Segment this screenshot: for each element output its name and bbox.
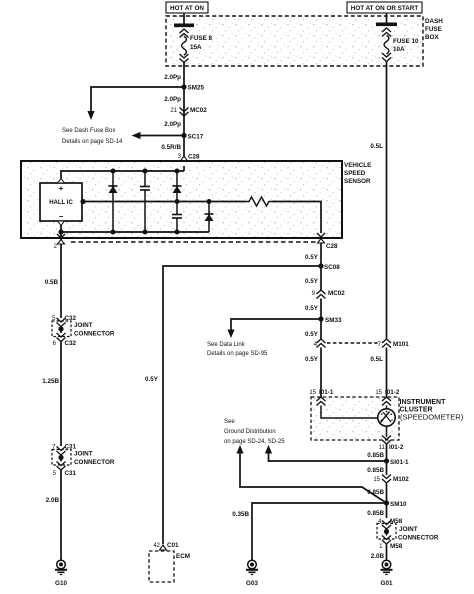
svg-text:2.0B: 2.0B [371, 553, 385, 560]
hall IC - terminal mark [58, 221, 65, 226]
svg-text:FUSE 10: FUSE 10 [393, 38, 419, 45]
wire G03 branch [252, 503, 387, 560]
arrow to data link note [227, 330, 234, 339]
wire fuse10 to M101 pin7 [386, 62, 388, 340]
connector M101 pin 4 [314, 339, 326, 348]
svg-text:C28: C28 [188, 154, 200, 161]
svg-text:JOINT: JOINT [74, 322, 93, 329]
svg-text:0.5Y: 0.5Y [305, 278, 319, 285]
wire SI01-1 branch to ground distribution [269, 452, 387, 461]
wire C28 to SC08 [320, 243, 322, 266]
svg-text:CONNECTOR: CONNECTOR [74, 459, 115, 466]
svg-text:I01-2: I01-2 [385, 389, 400, 396]
diode D3 [205, 202, 214, 233]
svg-text:I01-2: I01-2 [389, 444, 404, 451]
wire SM10 to M58 [386, 503, 388, 518]
svg-text:G03: G03 [246, 580, 258, 587]
svg-text:−: − [59, 212, 64, 221]
node SI01-1 [384, 458, 409, 466]
svg-text:HOT AT ON: HOT AT ON [170, 5, 204, 12]
ground G03 [246, 560, 258, 587]
dash fuse box label [425, 18, 443, 41]
wire from HOT AT ON to bus bar [183, 13, 185, 24]
connector C01 pin 42 (ECM entry) [153, 542, 179, 556]
svg-text:5: 5 [53, 471, 57, 477]
svg-text:MC02: MC02 [190, 107, 207, 114]
svg-text:2.0Pp: 2.0Pp [164, 74, 181, 81]
svg-text:SM10: SM10 [390, 501, 407, 508]
svg-text:SENSOR: SENSOR [344, 178, 371, 185]
instrument cluster box [311, 397, 399, 440]
wire SI01-1 to M102 [386, 461, 388, 475]
bus bar right [376, 23, 397, 27]
connector M102 pin 15 [373, 475, 409, 484]
connector C28 pin 2 (sensor exit) [54, 232, 65, 250]
svg-text:7: 7 [378, 342, 382, 348]
svg-text:2.0Pp: 2.0Pp [164, 121, 181, 128]
svg-text:VEHICLE: VEHICLE [344, 162, 371, 169]
svg-text:11: 11 [379, 445, 386, 451]
svg-text:2: 2 [54, 244, 58, 250]
capacitor C1 [140, 171, 150, 232]
svg-text:1.25B: 1.25B [42, 378, 59, 385]
vehicle speed sensor box [21, 161, 342, 238]
svg-text:G01: G01 [381, 580, 393, 587]
joint connector C31 label [74, 451, 115, 467]
node SM25 [181, 84, 204, 91]
svg-text:C32: C32 [65, 340, 77, 347]
svg-text:See Data Link: See Data Link [207, 342, 246, 348]
ECM box [149, 551, 190, 582]
node D1 top [111, 169, 116, 174]
svg-text:HOT AT ON OR START: HOT AT ON OR START [351, 5, 419, 12]
node SM33 [318, 316, 342, 324]
svg-text:15: 15 [373, 477, 380, 483]
node SC08 [318, 263, 340, 271]
svg-text:(SPEEDOMETER): (SPEEDOMETER) [400, 413, 464, 422]
wire cluster to SI01-1 [386, 444, 388, 461]
svg-text:FUSE 8: FUSE 8 [190, 35, 213, 42]
node D2/C2 bottom [175, 230, 180, 235]
joint connector M58 label [398, 526, 439, 542]
node SC17 [181, 133, 203, 141]
wire M102 to SM10 [386, 484, 388, 504]
speedometer gauge [378, 409, 395, 426]
fuse 10 value label [393, 38, 419, 53]
resistor R1 [246, 197, 272, 206]
svg-text:JOINT: JOINT [399, 526, 418, 533]
svg-text:42: 42 [153, 543, 160, 549]
wire cluster internal left [321, 406, 378, 419]
svg-text:CONNECTOR: CONNECTOR [74, 331, 115, 338]
node D2/C2 top [175, 169, 180, 174]
svg-text:M58: M58 [390, 543, 403, 550]
hall IC box [40, 183, 82, 221]
note: see data link details [207, 342, 268, 357]
svg-text:0.5Y: 0.5Y [305, 305, 319, 312]
svg-text:SM33: SM33 [325, 317, 342, 324]
wire speedometer to exit [386, 426, 388, 437]
connector I01-2 pin 11 (exit) [379, 436, 404, 452]
wire SM33 to M101 pin4 [320, 319, 322, 339]
wire pin2 to C32 [60, 247, 62, 318]
svg-text:FUSE: FUSE [425, 26, 442, 33]
connector I01-2 pin 15 [375, 389, 400, 406]
arrow 1 to ground distribution note [236, 445, 243, 454]
hall IC + terminal mark [58, 179, 65, 184]
svg-text:SC08: SC08 [324, 264, 340, 271]
wire MC02 to SM33 [320, 299, 322, 320]
svg-text:MC02: MC02 [328, 290, 345, 297]
fuse 8 connector bottom [180, 54, 189, 63]
ground G10 [55, 560, 67, 587]
fuse 8 value label [190, 35, 213, 51]
svg-text:0.5L: 0.5L [370, 356, 383, 363]
node D1 bottom [111, 230, 116, 235]
wire M101 pin4 to cluster I01-1 [320, 348, 322, 399]
wire sensor entry to top rail [183, 166, 185, 171]
svg-text:C01: C01 [167, 542, 179, 549]
svg-text:JOINT: JOINT [74, 451, 93, 458]
svg-text:3: 3 [178, 154, 182, 160]
vehicle speed sensor label [344, 162, 371, 185]
svg-text:SPEED: SPEED [344, 170, 366, 177]
connector C28 pin 1 (sensor exit) [317, 233, 338, 250]
connector C28 pin 3 (sensor entry) [178, 154, 200, 167]
wire from ground distribution arrow 1 (diagonal to SM10) [240, 452, 387, 503]
diode D2 [173, 171, 182, 202]
arrow to dash fuse box note (left) [132, 132, 141, 139]
HOT AT ON label [166, 2, 208, 13]
svg-text:0.85B: 0.85B [367, 467, 384, 474]
wire resistor to C28 pin 1 [272, 202, 321, 234]
instrument cluster label [400, 399, 464, 422]
node C1 bottom [143, 230, 148, 235]
svg-text:0.5Y: 0.5Y [305, 356, 319, 363]
svg-text:0.5Y: 0.5Y [145, 376, 159, 383]
node hall output [80, 199, 85, 204]
svg-text:INSTRUMENT: INSTRUMENT [400, 399, 447, 406]
wire from HOT AT ON OR START to bus bar [386, 13, 388, 23]
svg-text:HALL IC: HALL IC [49, 200, 73, 206]
wire C31 to G10 [60, 470, 62, 560]
ground G01 [381, 560, 393, 587]
svg-text:SC17: SC17 [188, 134, 204, 141]
svg-text:2.0Pp: 2.0Pp [164, 96, 181, 103]
svg-text:21: 21 [170, 108, 177, 114]
node D2/C2 middle [175, 199, 180, 204]
fuse 8 connector top [180, 29, 189, 38]
svg-text:+: + [59, 184, 64, 193]
svg-text:Details on page SD-14: Details on page SD-14 [62, 139, 123, 145]
svg-text:0.35B: 0.35B [232, 511, 249, 518]
wire cluster internal right [386, 406, 388, 410]
note: see ground distribution [224, 419, 285, 445]
capacitor C2 [172, 202, 182, 233]
diode D1 [109, 171, 118, 232]
svg-text:ECM: ECM [176, 553, 190, 560]
dash fuse box (shaded dashed outline) [166, 16, 423, 66]
svg-text:I01-1: I01-1 [319, 389, 334, 396]
svg-text:15: 15 [375, 390, 382, 396]
svg-text:SI01-1: SI01-1 [390, 459, 409, 466]
arrow to dash fuse box note [87, 111, 94, 120]
arrow 2 to ground distribution note [265, 445, 272, 454]
bus bar left [174, 24, 194, 28]
svg-text:0.85B: 0.85B [367, 510, 384, 517]
svg-text:0.5Y: 0.5Y [305, 254, 319, 261]
svg-text:1: 1 [379, 544, 383, 550]
wire SC17 branch left with arrow [140, 135, 184, 137]
connector I01-1 pin 15 [309, 389, 334, 406]
wire C32 to C31 [60, 342, 62, 447]
svg-text:M101: M101 [393, 341, 409, 348]
svg-text:0.5B: 0.5B [45, 279, 59, 286]
svg-text:DASH: DASH [425, 18, 443, 25]
fuse F10 element [384, 36, 389, 55]
joint connector C32 [52, 315, 77, 347]
fuse F8 element [182, 37, 187, 56]
note: see dash fuse box details [62, 128, 123, 145]
connector line C28 (dashed) [71, 241, 318, 243]
svg-text:10A: 10A [393, 46, 405, 53]
svg-text:Details on page SD-95: Details on page SD-95 [207, 351, 268, 357]
wire M101 pin7 to cluster I01-2 [386, 348, 388, 399]
joint connector C31 [52, 444, 77, 478]
wire M58 to G01 [386, 544, 388, 560]
svg-text:M102: M102 [393, 476, 409, 483]
fuse 10 connector bottom [382, 53, 391, 62]
top rail wire [61, 171, 184, 179]
connector MC02 pin 21 [170, 107, 207, 116]
joint connector C32 label [74, 322, 115, 338]
svg-text:See Dash Fuse Box: See Dash Fuse Box [62, 128, 115, 134]
HOT AT ON OR START label [347, 2, 422, 13]
wire SM25 branch left [91, 87, 184, 111]
svg-text:G10: G10 [55, 580, 67, 587]
svg-text:2.0B: 2.0B [46, 497, 60, 504]
svg-text:6: 6 [53, 341, 57, 347]
svg-text:SM25: SM25 [188, 85, 205, 92]
svg-text:C28: C28 [326, 243, 338, 250]
svg-text:0.85B: 0.85B [367, 452, 384, 459]
wire SC08 to MC02 [320, 266, 322, 290]
svg-text:on page SD-24, SD-25: on page SD-24, SD-25 [224, 439, 285, 445]
node pin2 junction [58, 229, 63, 234]
svg-text:See: See [224, 419, 235, 425]
svg-text:0.5L: 0.5L [370, 143, 383, 150]
svg-text:9: 9 [312, 291, 316, 297]
svg-text:Ground Distribution: Ground Distribution [224, 429, 276, 435]
joint connector M58 [377, 518, 403, 550]
svg-text:15A: 15A [190, 44, 202, 51]
svg-text:CONNECTOR: CONNECTOR [398, 535, 439, 542]
fuse 10 connector top [382, 28, 391, 37]
svg-text:C31: C31 [65, 470, 77, 477]
connector M101 pin 7 [378, 339, 410, 348]
connector MC02 pin 9 [312, 290, 346, 299]
node D3 top [207, 199, 212, 204]
node SM10 [384, 500, 407, 508]
node C1 top [143, 169, 148, 174]
bottom rail wire [61, 226, 209, 233]
wire SC08 branch to ECM [163, 266, 321, 544]
svg-text:0.5R/B: 0.5R/B [161, 144, 181, 151]
svg-text:0.5Y: 0.5Y [305, 331, 319, 338]
middle rail wire (hall output) [82, 201, 246, 203]
svg-text:15: 15 [309, 390, 316, 396]
wire SM33 branch to data link note [231, 319, 321, 330]
svg-text:BOX: BOX [425, 34, 439, 41]
connector M101 dashed link [327, 342, 380, 344]
wire fuse8 to SM25 [183, 62, 185, 158]
